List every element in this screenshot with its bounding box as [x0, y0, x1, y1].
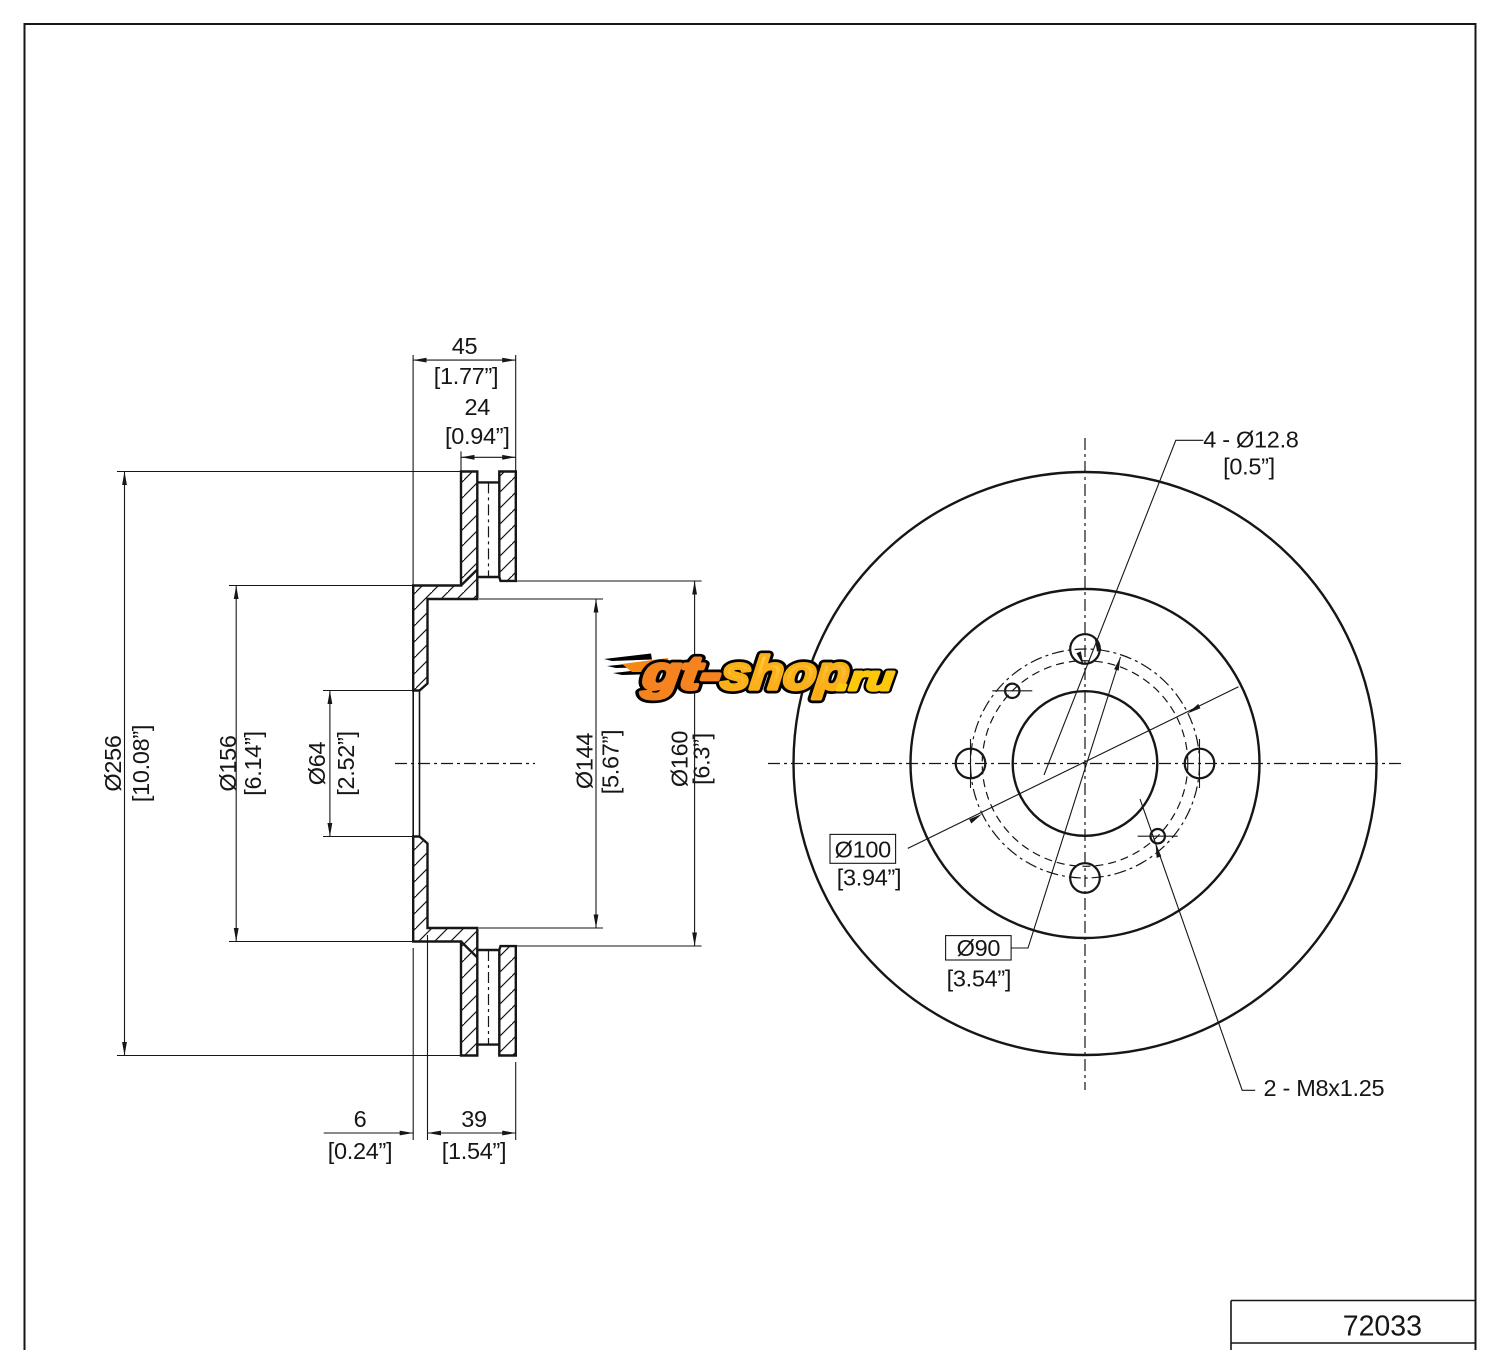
svg-text:6: 6 — [354, 1106, 367, 1132]
svg-text:[3.94”]: [3.94”] — [837, 865, 902, 891]
leader arrow at bolt hole — [1095, 638, 1102, 652]
leader arrow at M8 hole — [1156, 843, 1162, 858]
dimension 6 line with arrow — [324, 1132, 414, 1134]
dimension Ø156 extension lines — [229, 585, 413, 587]
title block frame — [1231, 1301, 1476, 1350]
dimension 6 and 39 extension lines — [412, 948, 414, 1140]
bolt hole bottom — [1070, 863, 1100, 893]
dimension Ø100 diagonal line — [908, 687, 1239, 849]
dimension Ø144 line with arrows — [595, 599, 597, 928]
svg-text:[0.5”]: [0.5”] — [1223, 454, 1275, 480]
svg-text:[2.52”]: [2.52”] — [333, 731, 359, 796]
svg-text:[0.24”]: [0.24”] — [328, 1138, 393, 1164]
center tick M8 hole upper-left — [992, 690, 1032, 692]
svg-text:72033: 72033 — [1343, 1311, 1422, 1343]
svg-text:[5.67”]: [5.67”] — [598, 730, 624, 795]
center tick right bolt hole — [1199, 739, 1201, 788]
svg-text:[1.54”]: [1.54”] — [442, 1138, 507, 1164]
outline hat flange and outboard pad, top half — [413, 472, 477, 691]
hat cone transition edge, bottom half — [461, 942, 477, 958]
svg-text:39: 39 — [461, 1106, 487, 1132]
svg-text:Ø64: Ø64 — [304, 742, 330, 786]
dimension Ø64 extension lines — [323, 690, 413, 692]
logo speed spike 1 — [604, 654, 652, 662]
dimension Ø64 line with arrows — [329, 691, 331, 837]
service hole circle Ø90 dashed — [982, 661, 1188, 867]
center tick left bolt hole — [970, 739, 972, 788]
horizontal centerline — [768, 763, 1404, 765]
bolt hole left — [956, 749, 986, 779]
vent rib centerline, bottom half — [488, 950, 490, 1045]
dimension Ø144 extension lines — [479, 598, 603, 600]
outline inboard pad, top half — [499, 472, 516, 581]
centre bore cylinder edge seen through bore — [419, 691, 421, 837]
svg-text:Ø156: Ø156 — [215, 735, 241, 792]
dimension Ø160 line with arrows — [694, 581, 696, 946]
section hatch, hat and outboard pad, bottom half — [413, 837, 477, 1056]
leader line 4-Ø12.8 — [1044, 440, 1203, 775]
dimension 24 line with arrows — [461, 456, 516, 458]
frame box around Ø90 — [946, 936, 1012, 960]
rotation axis centerline — [395, 763, 535, 765]
svg-text:24: 24 — [465, 394, 491, 420]
bolt hole top — [1070, 634, 1100, 664]
svg-text:2 - M8x1.25: 2 - M8x1.25 — [1264, 1075, 1385, 1101]
dimension Ø100 arrow upper-right — [1187, 704, 1200, 714]
vertical centerline — [1084, 438, 1086, 1090]
bolt circle Ø100 dash-dot — [971, 649, 1200, 878]
vent slot outer edge, top half — [477, 481, 499, 483]
dimension Ø256 extension lines — [117, 471, 461, 473]
svg-text:Ø90: Ø90 — [957, 935, 1001, 961]
svg-text:45: 45 — [452, 333, 478, 359]
vent slot root, top half — [477, 576, 499, 578]
dimension Ø100 arrow lower-left — [969, 814, 982, 824]
svg-text:[3.54”]: [3.54”] — [947, 966, 1012, 992]
M8 hole lower-right — [1151, 829, 1165, 843]
logo speed flame orange — [622, 658, 670, 672]
hat cone transition edge, top half — [461, 570, 477, 586]
centre bore chamfer circle edge seen through bore — [412, 691, 414, 837]
leader line Ø90 — [1011, 657, 1120, 948]
svg-text:4 - Ø12.8: 4 - Ø12.8 — [1203, 427, 1299, 453]
outline hat flange and outboard pad, bottom half — [413, 837, 477, 1056]
leader line 2-M8x1.25 — [1140, 799, 1255, 1090]
outline inboard pad, bottom half — [499, 946, 516, 1055]
section hatch, inboard pad, top half — [499, 472, 516, 581]
svg-text:shop: shop — [719, 646, 853, 699]
leader arrow Ø90 upper end — [1114, 657, 1120, 671]
dimension Ø160 extension lines — [501, 580, 702, 582]
hat outer diameter circle — [911, 589, 1260, 938]
dimension 39 line with arrows — [428, 1132, 516, 1134]
dimension 45 line with arrows — [413, 359, 516, 361]
svg-text:Ø256: Ø256 — [100, 735, 126, 792]
logo text gt-shop.ru — [639, 646, 897, 699]
vent slot root, bottom half — [477, 949, 499, 951]
dimension 45 extension lines — [412, 355, 414, 586]
frame box around Ø100 — [830, 834, 896, 863]
svg-text:[6.14”]: [6.14”] — [240, 731, 266, 796]
dimension Ø256 line with arrows — [124, 472, 126, 1056]
leader arrow at Ø90 circle — [1076, 651, 1083, 665]
svg-text:.ru: .ru — [836, 660, 896, 698]
logo speed spike 3 — [613, 669, 656, 676]
svg-text:Ø144: Ø144 — [572, 733, 598, 790]
centre bore circle — [1013, 691, 1158, 836]
svg-text:[6.3”]: [6.3”] — [689, 733, 715, 785]
section hatch, hat and outboard pad, top half — [413, 472, 477, 691]
svg-text:[10.08”]: [10.08”] — [128, 725, 154, 802]
bolt hole right — [1185, 749, 1215, 779]
svg-text:gt-: gt- — [639, 646, 724, 699]
svg-text:Ø100: Ø100 — [835, 836, 892, 862]
section hatch, inboard pad, bottom half — [499, 946, 516, 1055]
vent slot outer edge, bottom half — [477, 1043, 499, 1045]
M8 hole upper-left — [1005, 684, 1019, 698]
svg-text:[0.94”]: [0.94”] — [445, 423, 510, 449]
center tick M8 hole lower-right — [1138, 835, 1178, 837]
svg-text:[1.77”]: [1.77”] — [434, 363, 499, 389]
dimension Ø156 line with arrows — [235, 586, 237, 942]
dimension 24 extension line — [460, 451, 462, 471]
vent rib centerline, top half — [488, 482, 490, 577]
disc outer diameter circle — [794, 472, 1377, 1055]
logo speed spike 2 — [607, 662, 654, 669]
